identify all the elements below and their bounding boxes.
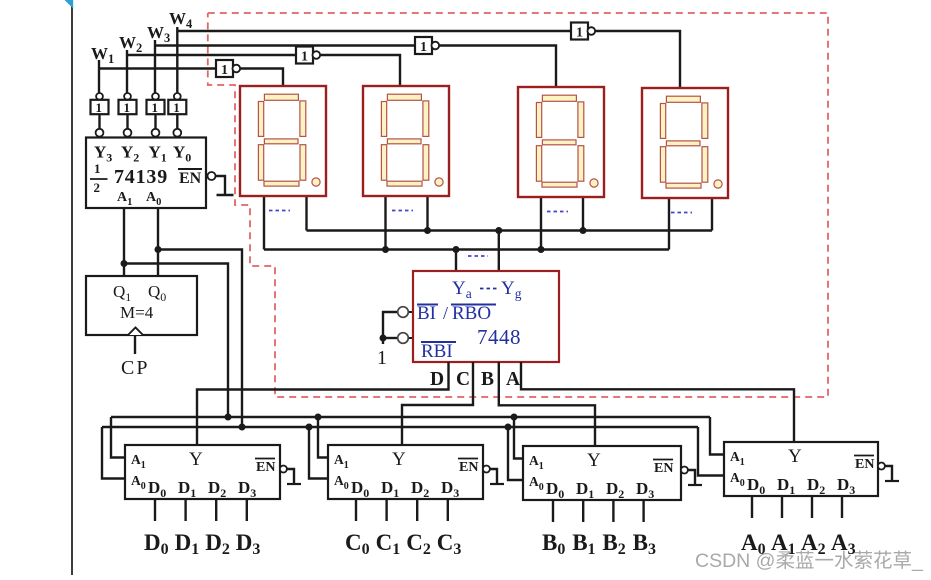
svg-text:M=4: M=4 — [120, 303, 154, 322]
svg-text:CP: CP — [121, 357, 149, 379]
svg-text:1: 1 — [221, 63, 228, 78]
svg-text:EN: EN — [654, 461, 673, 476]
svg-text:A: A — [506, 369, 520, 390]
svg-text:B: B — [481, 369, 494, 390]
svg-text:1: 1 — [94, 161, 101, 176]
svg-text:2: 2 — [94, 180, 101, 195]
svg-text:7448: 7448 — [477, 325, 521, 349]
svg-text:EN: EN — [459, 460, 478, 475]
svg-text:74139: 74139 — [114, 166, 168, 188]
svg-text:RBO: RBO — [452, 303, 491, 324]
svg-text:D: D — [430, 369, 444, 390]
svg-text:1: 1 — [301, 50, 308, 65]
svg-text:1: 1 — [576, 26, 583, 41]
svg-text:BI: BI — [417, 303, 436, 324]
svg-text:Y: Y — [788, 446, 802, 467]
svg-text:1: 1 — [152, 100, 159, 115]
svg-text:1: 1 — [173, 100, 180, 115]
svg-text:Y: Y — [587, 450, 601, 471]
svg-text:C: C — [456, 369, 470, 390]
svg-text:EN: EN — [179, 170, 202, 187]
svg-text:CSDN @柔蓝一水萦花草_: CSDN @柔蓝一水萦花草_ — [695, 550, 924, 572]
svg-text:1: 1 — [96, 100, 103, 115]
svg-text:EN: EN — [256, 460, 275, 475]
svg-text:RBI: RBI — [421, 341, 453, 362]
svg-text:Y: Y — [189, 449, 203, 470]
svg-text:EN: EN — [855, 457, 874, 472]
svg-text:1: 1 — [420, 40, 427, 55]
svg-text:/: / — [443, 303, 448, 323]
svg-text:1: 1 — [377, 347, 387, 369]
svg-text:1: 1 — [124, 100, 131, 115]
svg-text:Y: Y — [392, 449, 406, 470]
